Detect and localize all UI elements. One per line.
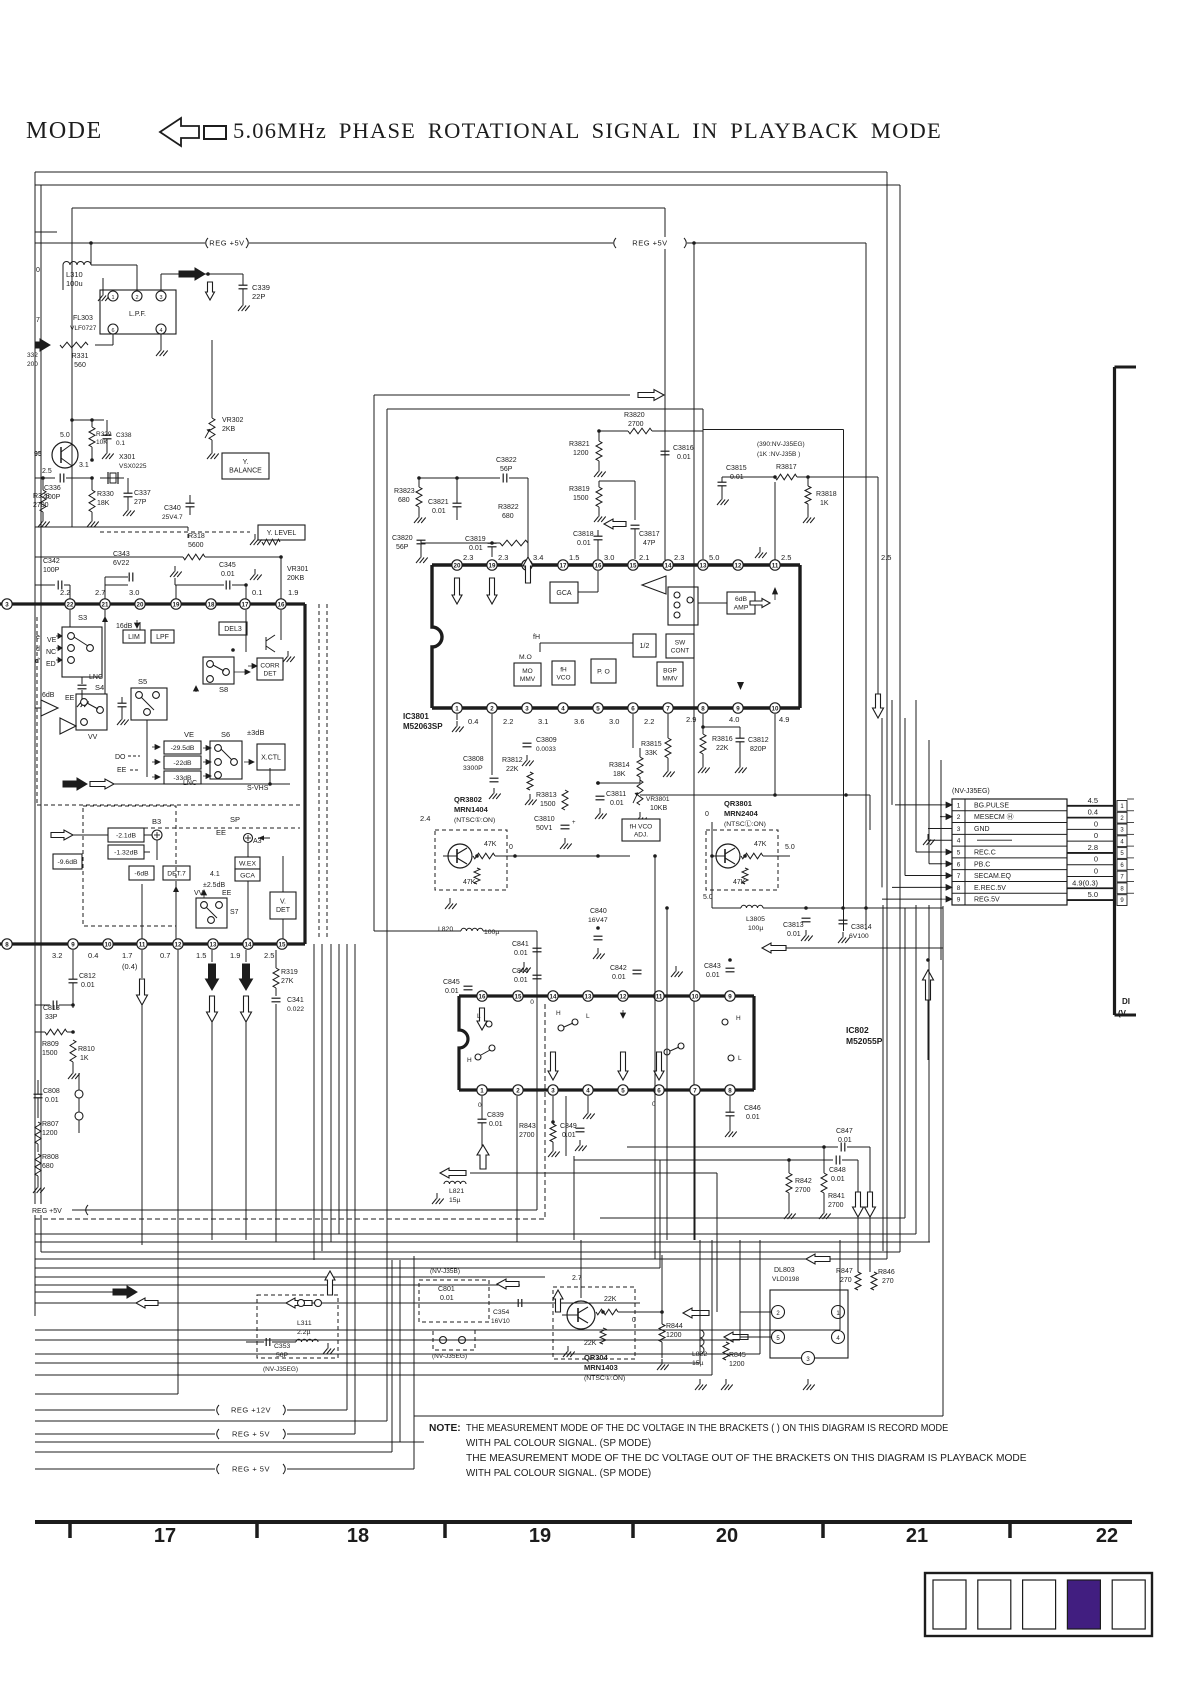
svg-text:13: 13	[585, 993, 592, 1000]
svg-text:(0.4): (0.4)	[122, 962, 138, 971]
svg-text:5: 5	[621, 1087, 625, 1094]
svg-text:3.0: 3.0	[604, 553, 614, 562]
svg-text:22: 22	[1096, 1525, 1118, 1547]
svg-text:(1K :NV-J35B ): (1K :NV-J35B )	[757, 451, 800, 458]
svg-text:1500: 1500	[540, 801, 556, 808]
svg-text:2: 2	[135, 295, 138, 301]
svg-text:1.9: 1.9	[230, 951, 240, 960]
svg-text:18K: 18K	[613, 771, 626, 778]
svg-text:MMV: MMV	[520, 676, 536, 683]
svg-text:V.: V.	[280, 899, 286, 906]
svg-text:0.01: 0.01	[45, 1097, 59, 1104]
svg-text:R845: R845	[729, 1352, 746, 1359]
svg-text:4: 4	[561, 705, 565, 712]
svg-text:2: 2	[490, 705, 494, 712]
svg-text:0.01: 0.01	[81, 982, 95, 989]
svg-text:THE MEASUREMENT MODE OF THE DC: THE MEASUREMENT MODE OF THE DC VOLTAGE I…	[466, 1423, 949, 1435]
svg-text:8: 8	[701, 705, 705, 712]
svg-text:2700: 2700	[828, 1202, 844, 1209]
svg-text:C3816: C3816	[673, 445, 694, 452]
svg-text:16V10: 16V10	[491, 1318, 510, 1325]
svg-text:P. O: P. O	[597, 668, 610, 675]
svg-text:C339: C339	[252, 283, 270, 292]
svg-text:C345: C345	[219, 562, 236, 569]
svg-text:6: 6	[957, 861, 961, 868]
svg-text:R810: R810	[78, 1046, 95, 1053]
svg-text:15: 15	[279, 941, 286, 948]
svg-text:2: 2	[957, 814, 961, 821]
svg-text:C812: C812	[79, 973, 96, 980]
svg-text:C844: C844	[512, 968, 529, 975]
svg-text:R844: R844	[666, 1323, 683, 1330]
svg-text:1/2: 1/2	[640, 643, 650, 650]
svg-text:18: 18	[208, 601, 215, 608]
svg-text:R319: R319	[281, 969, 298, 976]
svg-text:C3818: C3818	[573, 531, 594, 538]
svg-text:R318: R318	[188, 533, 205, 540]
svg-text:10: 10	[772, 705, 779, 712]
svg-text:4.9(0.3): 4.9(0.3)	[1072, 878, 1098, 887]
svg-text:(NV-J35EG): (NV-J35EG)	[952, 788, 990, 795]
svg-text:C3817: C3817	[639, 531, 660, 538]
svg-text:C801: C801	[438, 1286, 455, 1293]
svg-text:BALANCE: BALANCE	[229, 468, 262, 475]
svg-text:2.2µ: 2.2µ	[297, 1329, 310, 1336]
svg-text:(NTSCⓁ:ON): (NTSCⓁ:ON)	[724, 820, 766, 828]
svg-text:2.5: 2.5	[264, 951, 274, 960]
svg-text:2700: 2700	[33, 502, 49, 509]
svg-text:A3: A3	[253, 838, 262, 845]
svg-text:fH: fH	[533, 634, 540, 641]
svg-text:1K: 1K	[80, 1055, 89, 1062]
svg-text:(NV-J35EG): (NV-J35EG)	[263, 1366, 298, 1373]
svg-text:95: 95	[34, 451, 42, 458]
svg-text:3300P: 3300P	[463, 765, 483, 772]
svg-text:BG.PULSE: BG.PULSE	[974, 802, 1009, 809]
svg-text:GCA: GCA	[556, 590, 572, 597]
svg-text:0.4: 0.4	[1088, 808, 1098, 817]
svg-text:8: 8	[5, 941, 9, 948]
svg-text:L820: L820	[438, 926, 453, 933]
svg-text:C3815: C3815	[726, 465, 747, 472]
svg-text:5600: 5600	[188, 542, 204, 549]
svg-text:EE: EE	[216, 828, 226, 837]
svg-text:2.3: 2.3	[498, 553, 508, 562]
svg-text:22K: 22K	[506, 766, 519, 773]
svg-text:2.5: 2.5	[42, 468, 52, 475]
svg-text:27K: 27K	[281, 978, 294, 985]
svg-text:560: 560	[74, 362, 86, 369]
svg-text:1200: 1200	[573, 450, 589, 457]
svg-text:-29.5dB: -29.5dB	[171, 745, 195, 752]
svg-text:-6dB: -6dB	[134, 870, 149, 877]
svg-text:LPF: LPF	[156, 634, 169, 641]
svg-text:6: 6	[111, 328, 114, 334]
svg-text:R329: R329	[96, 431, 112, 438]
svg-text:2.5: 2.5	[781, 553, 791, 562]
svg-text:5.0: 5.0	[703, 894, 713, 901]
svg-text:EE: EE	[65, 695, 75, 702]
svg-text:MRN1404: MRN1404	[454, 805, 489, 814]
svg-text:0.1: 0.1	[116, 440, 125, 447]
svg-text:REG + 5V: REG + 5V	[232, 1465, 270, 1474]
svg-text:MRN1403: MRN1403	[584, 1363, 618, 1372]
svg-text:C3819: C3819	[465, 536, 486, 543]
svg-text:6: 6	[657, 1087, 661, 1094]
svg-text:4.1: 4.1	[210, 871, 220, 878]
svg-text:MMV: MMV	[662, 675, 678, 682]
svg-text:R3812: R3812	[502, 757, 523, 764]
svg-text:2.5: 2.5	[881, 553, 891, 562]
svg-text:C3814: C3814	[851, 924, 872, 931]
svg-text:S3: S3	[78, 613, 87, 622]
svg-text:H: H	[736, 1015, 741, 1022]
svg-text:2.7: 2.7	[95, 588, 105, 597]
svg-text:C3811: C3811	[606, 791, 626, 798]
svg-text:(NTSC①:ON): (NTSC①:ON)	[454, 816, 495, 824]
svg-text:17: 17	[560, 562, 567, 569]
svg-text:-9.6dB: -9.6dB	[57, 859, 77, 866]
svg-text:3.4: 3.4	[533, 553, 543, 562]
svg-text:3: 3	[159, 295, 162, 301]
svg-text:1.7: 1.7	[122, 951, 132, 960]
svg-text:0.0033: 0.0033	[536, 746, 556, 753]
svg-text:(390:NV-J35EG): (390:NV-J35EG)	[757, 441, 805, 448]
svg-text:6V100: 6V100	[849, 933, 869, 940]
svg-text:C353: C353	[274, 1343, 290, 1350]
svg-text:1.5: 1.5	[569, 553, 579, 562]
svg-text:6dB: 6dB	[42, 692, 55, 699]
svg-text:0: 0	[705, 811, 709, 818]
svg-text:25V4.7: 25V4.7	[162, 514, 183, 521]
svg-text:2700: 2700	[519, 1132, 535, 1139]
svg-text:C3813: C3813	[783, 922, 804, 929]
svg-text:R847: R847	[836, 1268, 853, 1275]
svg-text:C841: C841	[512, 941, 529, 948]
svg-text:1: 1	[111, 295, 114, 301]
svg-text:21: 21	[102, 601, 109, 608]
svg-text:47K: 47K	[733, 879, 746, 886]
svg-text:0: 0	[509, 844, 513, 851]
svg-text:1.5: 1.5	[196, 951, 206, 960]
svg-text:2.8: 2.8	[1088, 843, 1098, 852]
svg-text:d': d'	[35, 658, 40, 665]
svg-text:GND: GND	[974, 826, 990, 833]
svg-text:0: 0	[632, 1317, 636, 1324]
svg-text:56P: 56P	[276, 1352, 289, 1359]
svg-text:19: 19	[489, 562, 496, 569]
svg-text:S4: S4	[95, 683, 104, 692]
svg-text:14: 14	[245, 941, 252, 948]
svg-text:22K: 22K	[604, 1296, 617, 1303]
svg-text:AMP: AMP	[734, 605, 749, 612]
svg-text:680: 680	[42, 1163, 54, 1170]
svg-text:H: H	[467, 1057, 472, 1064]
svg-text:0.01: 0.01	[831, 1176, 845, 1183]
svg-text:BGP: BGP	[663, 667, 677, 674]
svg-text:L.P.F.: L.P.F.	[129, 311, 146, 318]
svg-text:1: 1	[455, 705, 459, 712]
svg-text:7: 7	[957, 873, 961, 880]
svg-text:0.01: 0.01	[746, 1114, 760, 1121]
svg-text:C343: C343	[113, 551, 130, 558]
svg-text:±3dB: ±3dB	[247, 728, 264, 737]
svg-text:DET.7: DET.7	[167, 870, 186, 877]
svg-text:2.4: 2.4	[420, 814, 430, 823]
svg-text:0.01: 0.01	[730, 474, 744, 481]
svg-text:10K: 10K	[96, 439, 108, 446]
svg-text:332: 332	[27, 352, 38, 359]
svg-text:0.01: 0.01	[489, 1121, 503, 1128]
svg-text:C3810: C3810	[534, 816, 555, 823]
svg-text:0.01: 0.01	[514, 950, 528, 957]
svg-text:18: 18	[347, 1525, 369, 1547]
svg-text:5.0: 5.0	[709, 553, 719, 562]
svg-text:11: 11	[139, 941, 146, 948]
svg-text:DI: DI	[1122, 997, 1130, 1006]
svg-text:WITH PAL COLOUR SIGNAL. (SP MO: WITH PAL COLOUR SIGNAL. (SP MODE)	[466, 1468, 651, 1479]
svg-text:20: 20	[716, 1525, 738, 1547]
svg-text:12: 12	[175, 941, 182, 948]
svg-text:50V1: 50V1	[536, 825, 552, 832]
svg-text:4: 4	[957, 838, 961, 845]
svg-text:16V47: 16V47	[588, 917, 608, 924]
svg-text:R808: R808	[42, 1154, 59, 1161]
svg-text:VLF0727: VLF0727	[70, 325, 97, 332]
svg-text:ADJ.: ADJ.	[634, 831, 648, 838]
svg-text:REG + 5V: REG + 5V	[232, 1430, 270, 1439]
svg-text:DEL3: DEL3	[224, 626, 242, 633]
svg-text:0.01: 0.01	[610, 800, 624, 807]
svg-text:100µ: 100µ	[748, 925, 763, 932]
svg-text:1: 1	[480, 1087, 484, 1094]
svg-text:0.7: 0.7	[160, 951, 170, 960]
svg-text:PB.C: PB.C	[974, 861, 990, 868]
svg-text:SP: SP	[230, 815, 240, 824]
svg-text:M.O: M.O	[519, 654, 532, 661]
svg-text:3: 3	[957, 826, 961, 833]
svg-text:820P: 820P	[750, 746, 767, 753]
svg-text:VR3801: VR3801	[646, 796, 670, 803]
svg-text:MESECM Ⓗ: MESECM Ⓗ	[974, 813, 1014, 821]
svg-text:4: 4	[159, 328, 162, 334]
svg-text:X301: X301	[119, 454, 135, 461]
svg-text:2.7: 2.7	[572, 1275, 582, 1282]
svg-text:0.01: 0.01	[514, 977, 528, 984]
svg-text:12: 12	[620, 993, 627, 1000]
svg-text:9: 9	[71, 941, 75, 948]
svg-text:0.01: 0.01	[577, 540, 591, 547]
svg-text:3: 3	[551, 1087, 555, 1094]
svg-text:C845: C845	[443, 979, 460, 986]
svg-text:4.0: 4.0	[729, 715, 739, 724]
svg-text:1: 1	[957, 802, 961, 809]
svg-text:L821: L821	[449, 1188, 464, 1195]
svg-text:1.9: 1.9	[288, 588, 298, 597]
svg-text:47P: 47P	[643, 540, 656, 547]
svg-text:WITH PAL COLOUR SIGNAL. (SP MO: WITH PAL COLOUR SIGNAL. (SP MODE)	[466, 1438, 651, 1449]
svg-text:13: 13	[700, 562, 707, 569]
svg-text:S5: S5	[138, 677, 147, 686]
svg-text:S7: S7	[230, 909, 239, 916]
svg-text:MODE: MODE	[26, 118, 103, 144]
svg-text:VLD0198: VLD0198	[772, 1276, 799, 1283]
svg-text:5.0: 5.0	[1088, 890, 1098, 899]
svg-text:C3820: C3820	[392, 535, 413, 542]
svg-text:3.0: 3.0	[609, 717, 619, 726]
svg-text:VSX0225: VSX0225	[119, 463, 147, 470]
svg-text:EE: EE	[117, 767, 127, 774]
svg-text:R3815: R3815	[641, 741, 662, 748]
svg-text:9: 9	[957, 897, 961, 904]
svg-text:9: 9	[728, 993, 732, 1000]
svg-text:5: 5	[957, 850, 961, 857]
svg-text:4.9: 4.9	[779, 715, 789, 724]
svg-text:IC802: IC802	[846, 1025, 869, 1035]
svg-text:C354: C354	[493, 1309, 509, 1316]
svg-text:THE MEASUREMENT MODE OF THE DC: THE MEASUREMENT MODE OF THE DC VOLTAGE O…	[466, 1453, 1027, 1464]
svg-text:R3816: R3816	[712, 736, 733, 743]
svg-text:8: 8	[957, 885, 961, 892]
svg-text:M52055P: M52055P	[846, 1036, 883, 1046]
svg-text:1500: 1500	[573, 495, 589, 502]
svg-text:47K: 47K	[754, 841, 767, 848]
svg-text:NC: NC	[46, 649, 56, 656]
svg-text:1K: 1K	[820, 500, 829, 507]
svg-text:6V22: 6V22	[113, 560, 129, 567]
svg-text:C839: C839	[487, 1112, 504, 1119]
svg-text:REG +12V: REG +12V	[231, 1406, 271, 1415]
svg-text:+: +	[572, 820, 576, 826]
svg-text:10: 10	[692, 993, 699, 1000]
svg-text:56P: 56P	[500, 466, 513, 473]
svg-text:0.022: 0.022	[287, 1006, 304, 1013]
svg-text:C3821: C3821	[428, 499, 449, 506]
svg-text:C337: C337	[134, 490, 151, 497]
svg-text:22K: 22K	[584, 1340, 597, 1347]
svg-text:3: 3	[525, 705, 529, 712]
svg-text:5: 5	[596, 705, 600, 712]
svg-text:1200: 1200	[42, 1130, 58, 1137]
svg-text:REC.C: REC.C	[974, 850, 996, 857]
svg-text:0: 0	[1094, 819, 1098, 828]
svg-text:100u: 100u	[66, 279, 83, 288]
svg-text:0.01: 0.01	[469, 545, 483, 552]
svg-text:MRN2404: MRN2404	[724, 809, 759, 818]
svg-text:17: 17	[154, 1525, 176, 1547]
svg-text:C3808: C3808	[463, 756, 484, 763]
svg-text:±2.5dB: ±2.5dB	[203, 882, 225, 889]
svg-text:REG +5V: REG +5V	[209, 239, 244, 248]
svg-text:2.1: 2.1	[639, 553, 649, 562]
svg-text:14: 14	[665, 562, 672, 569]
svg-text:0.01: 0.01	[562, 1132, 576, 1139]
svg-text:C847: C847	[836, 1128, 853, 1135]
svg-text:15: 15	[515, 993, 522, 1000]
svg-text:L: L	[477, 1013, 481, 1020]
svg-text:100P: 100P	[43, 567, 60, 574]
svg-text:3: 3	[5, 601, 9, 608]
svg-text:VE: VE	[47, 637, 57, 644]
svg-text:QR3802: QR3802	[454, 795, 482, 804]
svg-text:B3: B3	[152, 817, 161, 826]
svg-text:CORR: CORR	[260, 662, 279, 669]
svg-text:4.5: 4.5	[1088, 796, 1098, 805]
svg-text:270: 270	[882, 1278, 894, 1285]
svg-text:VR302: VR302	[222, 417, 244, 424]
svg-text:C842: C842	[610, 965, 627, 972]
svg-text:20: 20	[454, 562, 461, 569]
svg-text:SECAM.EQ: SECAM.EQ	[974, 873, 1012, 880]
svg-text:17: 17	[242, 601, 249, 608]
svg-text:C342: C342	[43, 558, 60, 565]
svg-text:33K: 33K	[645, 750, 658, 757]
svg-text:15µ: 15µ	[449, 1197, 461, 1204]
svg-text:VR301: VR301	[287, 566, 309, 573]
svg-text:E.REC.5V: E.REC.5V	[974, 885, 1006, 892]
svg-text:-1.32dB: -1.32dB	[114, 849, 138, 856]
svg-text:L311: L311	[297, 1320, 312, 1327]
svg-text:EE: EE	[222, 890, 232, 897]
svg-text:fH: fH	[560, 666, 567, 673]
svg-text:DL803: DL803	[774, 1267, 795, 1274]
svg-text:R3813: R3813	[536, 792, 557, 799]
svg-text:0.01: 0.01	[221, 571, 235, 578]
svg-text:5.06MHz PHASE ROTATIONAL SIGNA: 5.06MHz PHASE ROTATIONAL SIGNAL IN PLAYB…	[233, 118, 942, 143]
svg-text:-22dB: -22dB	[173, 760, 192, 767]
svg-text:C336: C336	[44, 485, 61, 492]
svg-text:VE: VE	[184, 730, 194, 739]
svg-text:SW: SW	[675, 639, 686, 646]
svg-text:S8: S8	[219, 685, 228, 694]
svg-text:200: 200	[27, 361, 38, 368]
svg-text:R3823: R3823	[394, 488, 415, 495]
svg-text:0.4: 0.4	[468, 717, 478, 726]
svg-text:19: 19	[173, 601, 180, 608]
svg-text:9: 9	[736, 705, 740, 712]
svg-text:R841: R841	[828, 1193, 845, 1200]
svg-text:C3809: C3809	[536, 737, 557, 744]
svg-text:R3819: R3819	[569, 486, 590, 493]
svg-text:1200: 1200	[729, 1361, 745, 1368]
svg-text:47K: 47K	[484, 841, 497, 848]
svg-text:5.0: 5.0	[60, 432, 70, 439]
svg-text:56P: 56P	[396, 544, 409, 551]
svg-text:6: 6	[631, 705, 635, 712]
svg-text:0.01: 0.01	[432, 508, 446, 515]
svg-text:0.01: 0.01	[706, 972, 720, 979]
svg-text:27P: 27P	[134, 499, 147, 506]
svg-text:100µ: 100µ	[484, 929, 499, 936]
svg-text:20KB: 20KB	[287, 575, 304, 582]
svg-text:L310: L310	[66, 270, 83, 279]
svg-text:0.01: 0.01	[677, 454, 691, 461]
svg-text:3.1: 3.1	[79, 462, 89, 469]
svg-text:0.1: 0.1	[252, 588, 262, 597]
svg-text:19: 19	[529, 1525, 551, 1547]
svg-text:3.2: 3.2	[52, 951, 62, 960]
svg-text:3.0: 3.0	[129, 588, 139, 597]
svg-text:4: 4	[586, 1087, 590, 1094]
svg-text:C3812: C3812	[748, 737, 769, 744]
svg-text:R3814: R3814	[609, 762, 630, 769]
svg-text:L: L	[738, 1055, 742, 1062]
svg-text:16dB: 16dB	[116, 623, 133, 630]
svg-text:0.01: 0.01	[445, 988, 459, 995]
svg-text:CONT: CONT	[671, 647, 689, 654]
svg-text:C3822: C3822	[496, 457, 517, 464]
svg-text:0: 0	[530, 999, 534, 1006]
